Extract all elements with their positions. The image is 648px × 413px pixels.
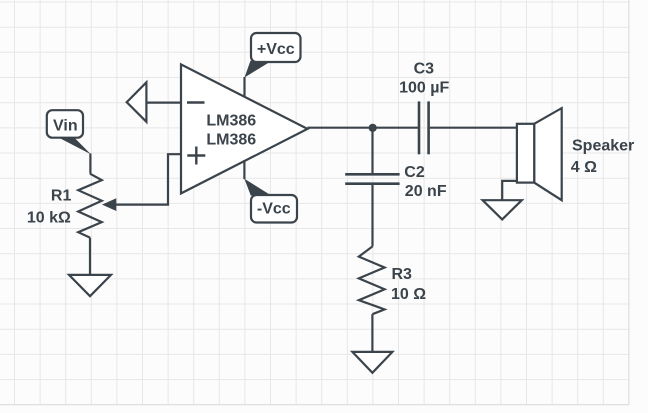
- svg-text:4 Ω: 4 Ω: [571, 159, 597, 176]
- svg-text:Vin: Vin: [53, 118, 78, 135]
- svg-text:10 Ω: 10 Ω: [391, 286, 426, 303]
- svg-text:10 kΩ: 10 kΩ: [27, 209, 71, 226]
- svg-text:C3: C3: [414, 61, 435, 78]
- svg-text:R3: R3: [392, 266, 413, 283]
- svg-text:-Vcc: -Vcc: [257, 201, 291, 218]
- svg-text:20 nF: 20 nF: [405, 183, 447, 200]
- svg-text:Speaker: Speaker: [572, 138, 634, 155]
- svg-text:C2: C2: [404, 164, 425, 181]
- svg-text:100 µF: 100 µF: [399, 79, 449, 96]
- svg-text:LM386: LM386: [206, 113, 256, 130]
- svg-text:R1: R1: [51, 188, 72, 205]
- svg-text:+Vcc: +Vcc: [257, 41, 295, 58]
- svg-text:LM386: LM386: [206, 132, 256, 149]
